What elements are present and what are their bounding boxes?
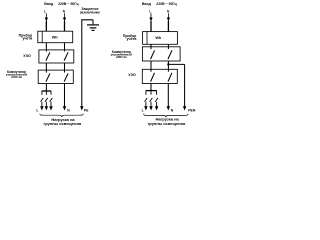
switch box Коммутатор (left) — [38, 70, 73, 83]
arrowhead L input (left) — [45, 18, 48, 22]
fan bar (left) — [42, 90, 52, 92]
wire L RCD to fan bar (right) — [150, 84, 152, 91]
switch box Коммутатор (right) — [142, 47, 180, 61]
brace loads (right) — [144, 114, 188, 118]
svg-text:учёта: учёта — [127, 37, 138, 41]
switch pole L in Коммутатор (left) — [46, 74, 50, 82]
svg-text:PEN: PEN — [188, 108, 196, 112]
wire N meter to RCD (left) — [64, 43, 66, 52]
wire N input shaft to meter (right) — [167, 21, 169, 32]
wire L meter to switchbox (right) — [150, 44, 152, 49]
svg-text:L: L — [44, 9, 46, 13]
svg-text:220В ~ 50Гц: 220В ~ 50Гц — [156, 2, 177, 6]
group breaker branch 2 (left) — [45, 91, 48, 107]
arrowhead L input (right) — [149, 18, 152, 22]
wire N input (left) — [64, 13, 66, 18]
svg-text:группы освещения: группы освещения — [44, 121, 82, 126]
arrowhead PE load (left) — [80, 106, 84, 110]
arrowhead branch 1 (right) — [144, 106, 148, 110]
group breaker branch 1 (right) — [145, 91, 148, 107]
wire PEN branch to riser — [168, 63, 184, 65]
arrowhead branch 3 (left) — [49, 106, 53, 110]
arrowhead branch 1 (left) — [40, 106, 44, 110]
svg-text:L: L — [142, 109, 144, 113]
wire L input shaft to meter (left) — [45, 21, 47, 31]
wire L switchbox to RCD (right) — [150, 61, 152, 72]
svg-text:группы освещения: группы освещения — [148, 121, 186, 126]
svg-text:УЗО: УЗО — [23, 54, 31, 58]
group breaker branch 3 (right) — [155, 91, 158, 107]
wire N RCD to switchbox (left) — [64, 63, 66, 73]
svg-text:L: L — [36, 109, 38, 113]
svg-text:Ввод: Ввод — [142, 2, 152, 6]
arrowhead N load (right) — [167, 106, 171, 110]
wire N input (right) — [167, 13, 169, 18]
wire L switchbox to fan bar (left) — [45, 84, 47, 92]
svg-text:Wh: Wh — [155, 36, 162, 40]
wire L RCD to switchbox (left) — [45, 63, 47, 73]
switch pole L in Коммутатор (right) — [151, 50, 155, 59]
wire N meter to switchbox (right) — [167, 44, 169, 49]
svg-text:учёта: учёта — [22, 36, 33, 40]
wire PE from ground down left panel right side — [82, 20, 93, 107]
junction dot PEN split — [167, 63, 169, 65]
wire N input shaft to meter (left) — [64, 21, 66, 31]
wire L input (left) — [45, 13, 47, 18]
svg-text:АВР-3к: АВР-3к — [116, 55, 127, 59]
group breaker branch 2 (right) — [150, 91, 153, 107]
svg-text:Ввод: Ввод — [44, 2, 54, 6]
switch pole L in УЗО (right) — [151, 73, 155, 82]
svg-text:L: L — [149, 9, 151, 13]
RCD box УЗО (right) — [142, 69, 177, 83]
switch pole L in УЗО (left) — [46, 52, 50, 60]
fan bar (right) — [146, 90, 157, 92]
group breaker branch 1 (left) — [41, 91, 44, 107]
RCD box УЗО (left) — [39, 50, 74, 63]
svg-text:УЗО: УЗО — [128, 73, 136, 77]
arrowhead branch 2 (left) — [45, 106, 49, 110]
svg-text:Wh: Wh — [52, 35, 59, 39]
wire N RCD to load (right) — [167, 84, 169, 107]
wire L input (right) — [150, 13, 152, 18]
meter box divider (left) — [41, 31, 43, 43]
meter box Wh (right) — [143, 32, 178, 45]
switch pole N in УЗО (right) — [168, 73, 172, 82]
arrowhead branch 2 (right) — [149, 106, 153, 110]
svg-text:заземление: заземление — [80, 11, 100, 15]
wire L input shaft to meter (right) — [150, 21, 152, 32]
wire PEN riser down — [184, 64, 186, 106]
meter box Wh (left) — [38, 31, 73, 43]
brace loads (left) — [40, 114, 84, 117]
arrowhead PEN load (right) — [183, 106, 187, 110]
svg-text:АВР-3к: АВР-3к — [11, 75, 22, 79]
wire N switchbox to load (left) — [64, 84, 66, 107]
svg-text:220В ~ 50Гц: 220В ~ 50Гц — [58, 2, 79, 6]
arrowhead N input (left) — [63, 18, 66, 22]
wire L meter to RCD (left) — [45, 43, 47, 52]
arrowhead branch 3 (right) — [155, 106, 159, 110]
svg-text:PE: PE — [84, 108, 89, 112]
switch pole N in Коммутатор (left) — [64, 74, 68, 82]
wire N switchbox to RCD (right) — [167, 61, 169, 72]
switch pole N in УЗО (left) — [64, 52, 68, 60]
arrowhead N load (left) — [63, 106, 67, 110]
ground symbol — [87, 20, 99, 31]
meter box divider (right) — [146, 32, 148, 45]
switch pole N in Коммутатор (right) — [168, 50, 172, 59]
arrowhead N input (right) — [167, 18, 170, 22]
group breaker branch 3 (left) — [50, 91, 53, 107]
